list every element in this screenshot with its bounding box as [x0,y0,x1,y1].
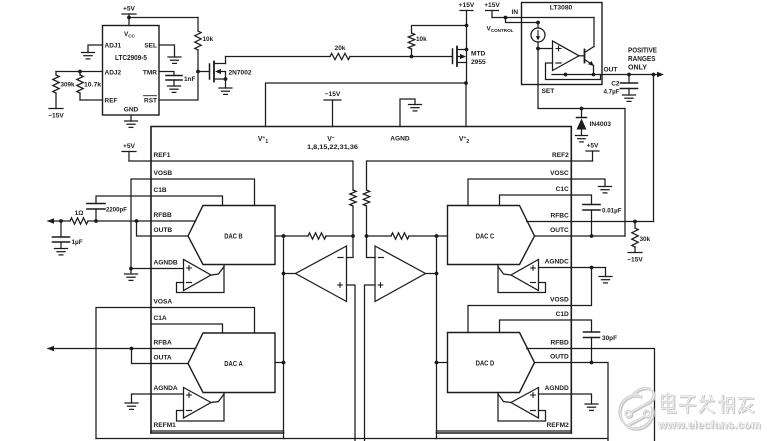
node AGNDC junction [590,266,594,270]
wire VOSA to bottom REFM rail [96,308,151,439]
node U3d output [435,272,439,276]
DAC A cell [188,333,275,393]
wire op amp D output to DAC D [498,394,511,403]
wire U3c output to bus [284,273,296,275]
svg-text:1Ω: 1Ω [75,210,84,217]
ground (AGNDD) [585,404,598,410]
wire VOSC to ground [571,179,605,187]
svg-text:V+2: V+2 [459,136,469,145]
wire RFBD internal [527,348,572,350]
wire AGNDB internal to op amp + [151,268,184,270]
wire RFBA internal [151,348,196,350]
wire AGNDD to ground [571,394,591,404]
wire REFM2 internal [437,430,572,432]
svg-text:REF: REF [105,98,118,105]
arrow RFBA off-page left [47,346,54,352]
svg-text:AGNDD: AGNDD [545,385,569,392]
svg-text:C1D: C1D [556,311,569,318]
op-amp U3e buffer C (inside) [511,260,539,291]
wire SET pin down and across [538,49,625,109]
label POSITIVE RANGES ONLY [628,48,657,72]
Q2 label MTD 2955 [471,51,486,67]
wire REF2 internal to R11 [367,161,572,190]
svg-text:www.elecfans.com: www.elecfans.com [657,420,761,432]
resistor R12 (DAC C to op amp) [367,233,437,239]
svg-text:REFM1: REFM1 [154,422,177,429]
node Q1 source [224,77,228,81]
wire op amp A feedback [177,393,225,422]
wire RFBB internal [151,220,196,222]
wire OUTB node down to op amp and DAC A [283,236,285,439]
+5V supply (LTC2909-5 VCC) [122,6,136,26]
svg-text:AGNDB: AGNDB [154,260,178,267]
wire bottom REFM rail [96,438,608,440]
wire C1 to ground [173,80,175,86]
current source I1 (inside LT3080) [531,23,545,49]
wire VOSD to AGNDC node [571,268,591,306]
watermark text dianzifashaoyou [663,394,676,413]
node DAC A output [282,361,286,365]
transistor Q2 MTD2955 PMOS [453,47,467,67]
svg-text:20k: 20k [335,45,346,52]
wire OUTA to RFBA [132,349,152,364]
wire DAC C to summing resistor [437,235,448,237]
wire DAC B to summing resistor [275,235,284,237]
node R9 summing junction [351,234,355,238]
resistor R9 (REF1 to summing node) [350,190,356,236]
node 30k junction [633,220,637,224]
op-amp U3d force amp (right, points right) [375,246,426,302]
svg-text:VOSD: VOSD [550,297,569,304]
svg-text:LT3080: LT3080 [550,5,573,12]
svg-text:IN: IN [512,9,519,16]
+15V supply (LT3080 IN) [484,2,500,18]
wire AGNDA internal to op amp + [151,393,184,395]
node IN junction [504,16,508,20]
ground (ADJ1) [82,53,95,59]
node C3 junction [94,219,98,223]
wire OUT line [552,74,654,76]
svg-text:DAC A: DAC A [224,361,243,368]
op-amp U3b buffer A (inside) [184,388,212,419]
node V+ rail junction [464,81,468,85]
transistor Q1 2N7002 NMOS [210,57,226,82]
-15V supply (30k) [627,253,643,264]
op-amp U3a buffer B (inside) [184,260,212,291]
svg-text:AGNDC: AGNDC [545,259,569,266]
svg-text:+5V: +5V [123,6,136,13]
ground (SEL) [168,57,181,63]
node +15V to R6 branch [465,24,469,28]
capacitor C2 4.7uF [621,75,638,96]
U1 pin RST (active low) [144,96,158,105]
resistor R5 20k [330,53,350,59]
arrow output to positive ranges [654,72,665,78]
wire VOSD internal [468,306,571,333]
wire OUTC to DAC C out [535,235,572,237]
wire I1 to op-amp + [538,48,553,50]
wire ADJ2 node [56,71,103,73]
svg-text:10k: 10k [416,36,427,43]
wire DAC D to middle bus [437,362,448,364]
svg-text:AGND: AGND [390,136,410,143]
svg-text:REF2: REF2 [552,152,569,159]
wire op amp D feedback [498,393,546,422]
wire C6 to OUTD [591,338,593,363]
node OUTA-RFBA tie [130,347,134,351]
wire OUTA to DAC A out [151,363,188,365]
node C2 junction [627,73,631,77]
wire C1D to C6 30pF [571,320,591,332]
resistor R3 10.7k [77,72,83,101]
wire OUTD to DAC D out [535,362,572,364]
capacitor C4 1uF [53,221,70,249]
svg-text:+5V: +5V [587,143,600,150]
svg-text:RFBC: RFBC [550,213,569,220]
resistor R10 (DAC B to op amp) [284,233,354,239]
svg-text:V+1: V+1 [258,136,268,145]
wire RST to gate node [159,72,198,101]
svg-text:+5V: +5V [123,143,136,150]
C2 labels [604,81,620,96]
wire AGND pin to ground [400,99,415,127]
ground (U1 GND) [125,115,138,127]
wire op amp B output to DAC B [211,267,224,276]
wire gate node to Q1 [198,71,210,73]
wire VOSB internal [151,179,255,206]
svg-text:V−: V− [327,136,335,143]
wire C1C to C5 [571,195,591,205]
DAC B cell [188,206,275,265]
ground (C2) [623,95,636,101]
resistor R7 1 ohm [70,218,88,224]
svg-text:VOSC: VOSC [550,170,569,177]
op-amp U3f buffer D (inside) [511,388,539,419]
wire op amp C feedback [498,265,546,293]
svg-text:RFBA: RFBA [154,340,173,347]
wire OUTB to RFBB [137,221,152,236]
svg-text:REF1: REF1 [154,152,171,159]
svg-text:SET: SET [542,88,555,95]
watermark text www.elecfans.com bottom [657,420,762,433]
wire OUTD down off-page [571,363,608,441]
svg-text:OUT: OUT [604,67,618,74]
node AGNDB ground junction [129,267,133,271]
svg-text:VCONTROL: VCONTROL [487,26,514,33]
node R11 summing junction [365,234,369,238]
svg-text:REFM2: REFM2 [546,422,569,429]
wire RFBD down off-page [571,349,654,441]
wire feedback (- input to OUT) [546,63,601,80]
node feedback tap [564,73,568,77]
wire C1A internal [151,324,223,333]
resistor R8 30k [632,222,638,253]
capacitor C3 2200pF [87,203,105,205]
svg-text:0.01µF: 0.01µF [602,208,622,215]
node Q2 source/body tie [465,48,469,52]
svg-text:RFBB: RFBB [154,212,173,219]
resistor R4 10k (gate pull-up) [195,18,201,72]
svg-text:−15V: −15V [325,91,341,98]
wire +5V to REF2 [571,160,592,162]
svg-text:−15V: −15V [48,113,64,120]
wire U3c + input down off-page [347,285,356,441]
capacitor C1 1nF [166,75,182,77]
wire op amp B feedback [177,265,225,293]
svg-text:30k: 30k [640,236,651,243]
wire C1B internal [151,196,223,206]
wire SET line to OUTC [624,109,626,237]
wire VOSB to AGNDB node [131,179,151,269]
diode D1 IN4003 [577,109,587,136]
+5V supply (REF2) [586,143,599,162]
svg-text:2955: 2955 [471,59,486,66]
ground (D1) [576,136,588,142]
wire VOSC internal [468,179,571,206]
capacitor C5 0.01uF [583,204,600,206]
svg-text:ADJ1: ADJ1 [105,43,122,50]
-15V supply (V- pin) [324,91,341,127]
svg-text:4.7µF: 4.7µF [604,89,620,96]
wire C1D internal [500,320,572,333]
svg-text:309k: 309k [61,82,75,89]
wire DAC A to middle bus [275,362,284,364]
node OUTB-RFBB tie [135,219,139,223]
svg-text:RST: RST [144,98,157,105]
wire C3 to RFBB node [95,209,97,221]
DAC C cell [448,206,535,265]
IC U1 LTC2909-5 body [103,26,160,116]
transistor Q3 NPN pass (inside LT3080) [579,18,594,75]
node 1uF junction [59,219,63,223]
node output arrow branch [652,73,656,77]
wire C1C internal [500,195,572,206]
+15V supply (MTD2955 source) [459,2,475,83]
DAC D cell [448,333,535,393]
wire AGNDA to ground [132,394,152,403]
watermark elecfans logo [620,389,654,429]
node emitter junction [592,73,596,77]
wire +5V to REF1 [129,160,151,162]
svg-text:LTC2909-5: LTC2909-5 [115,55,147,62]
wire VCC node to 10k R1 [129,17,198,19]
svg-text:C1C: C1C [556,186,569,193]
wire RFBC to output branch [571,221,653,223]
node C5-OUTC junction [590,234,594,238]
wire C5 to OUTC [591,210,593,236]
svg-text:ONLY: ONLY [628,65,647,72]
wire RFBB output line [48,220,151,222]
wire AGNDD internal to op amp + [539,393,572,395]
wire Q1 source to ground [225,79,227,88]
svg-text:OUTD: OUTD [550,354,569,361]
svg-text:C2: C2 [611,81,620,88]
node C6-OUTD junction [590,361,594,365]
node DAC D output [435,361,439,365]
svg-text:+15V: +15V [459,2,475,9]
svg-text:POSITIVE: POSITIVE [628,48,657,55]
svg-text:OUTB: OUTB [154,227,173,234]
svg-text:C1B: C1B [154,187,167,194]
node gate of Q1 [196,70,200,74]
wire AGNDC to ground [571,267,605,269]
arrow RFBB off-page left [47,218,54,224]
svg-text:C1A: C1A [154,315,167,322]
resistor R6 10k (MTD gate pull-up) [408,26,466,57]
wire REF1 internal to R9 [151,161,353,190]
wire RFBA line [48,348,151,350]
svg-text:DAC B: DAC B [224,234,243,241]
svg-text:VOSA: VOSA [154,299,173,306]
wire U3c - input to summing node [347,236,354,258]
node current source top [536,21,540,25]
svg-text:2200pF: 2200pF [106,207,127,214]
node VCC junction [127,16,131,20]
regulator U2 LT3080 body [522,3,603,85]
wire U3d + input down off-page [365,285,376,441]
node 10k R6 bottom junction [410,55,414,59]
ground (AGNDC) [599,268,612,283]
+5V supply (REF1) [122,143,136,161]
wire C1B to C3 2200pF [96,196,151,204]
ground (AGNDB) [125,269,138,281]
svg-text:10k: 10k [203,36,214,43]
capacitor C6 30pF [584,331,600,333]
wire +15V to IN [492,17,594,19]
ground (C1) [168,86,181,92]
wire U3d - input to summing node [367,236,376,258]
op-amp U3c force amp (left, points left) [296,246,347,302]
node DAC B output [282,234,286,238]
svg-text:MTD: MTD [471,51,486,58]
wire AGNDC internal to op amp + [539,267,572,269]
svg-text:DAC D: DAC D [476,361,495,368]
svg-text:VCC: VCC [124,31,136,39]
wire VOSA internal [151,308,255,334]
wire op amp A output to DAC A [211,394,224,403]
svg-text:GND: GND [124,107,139,114]
svg-text:OUTA: OUTA [154,355,172,362]
svg-text:DAC C: DAC C [476,234,495,241]
svg-text:TMR: TMR [143,70,157,77]
node ADJ2 divider junction [78,70,82,74]
wire ADJ1 to ground [88,45,103,53]
svg-text:VOSB: VOSB [154,170,173,177]
svg-text:OUTC: OUTC [550,227,569,234]
svg-text:−15V: −15V [627,257,643,264]
resistor R11 (REF2 to summing node) [363,190,369,236]
wire op amp C output to DAC C [498,267,511,276]
node IN4003 junction [580,107,584,111]
wire U3d output to bus [426,273,437,275]
wire VCONTROL [506,18,539,23]
svg-text:ADJ2: ADJ2 [105,70,122,77]
resistor R2 309k [53,72,59,109]
wire SEL to ground [159,45,175,57]
op-amp U2a (inside LT3080) [553,41,580,71]
wire R3 to REF pin [80,99,103,101]
wire OUTC node down to op amp and DAC D [436,236,438,439]
svg-text:+15V: +15V [484,2,500,9]
svg-text:AGNDA: AGNDA [154,385,178,392]
wire OUTC to SET line [571,235,625,237]
svg-text:SEL: SEL [144,43,157,50]
ground (VOSC) [599,187,612,193]
wire TMR to C1 1nF [159,72,174,76]
svg-text:2N7002: 2N7002 [229,70,252,77]
svg-text:10.7k: 10.7k [84,82,101,89]
svg-text:RANGES: RANGES [628,56,656,63]
wire V+ rail to V+2 pin [465,83,467,127]
node U3c output [282,272,286,276]
-15V supply (divider) [48,109,64,120]
wire OUTB to DAC B out [151,235,188,237]
ground (AGNDA) [125,403,138,409]
ground (C4) [55,249,68,255]
svg-text:1µF: 1µF [72,239,83,246]
svg-text:1,8,15,22,31,36: 1,8,15,22,31,36 [307,144,359,151]
ground (AGND) [409,105,422,111]
wire V+ rail to V+1 pin [266,83,467,127]
wire RFBC internal [527,221,572,223]
wire Q1 drain to MTD2955 gate (with 20k) [226,56,453,58]
node DAC C output [435,234,439,238]
wire output branch down to RFBC [653,75,655,222]
svg-text:IN4003: IN4003 [590,121,612,128]
ground (Q1 source) [219,88,232,94]
wire AGNDB to ground [131,268,151,270]
node SET junction [536,47,540,51]
wire REFM1 internal [151,430,284,432]
svg-text:30pF: 30pF [602,335,617,342]
svg-text:1nF: 1nF [184,76,195,83]
IC U3 LTC2704 body [151,127,571,434]
svg-text:RFBD: RFBD [550,340,569,347]
